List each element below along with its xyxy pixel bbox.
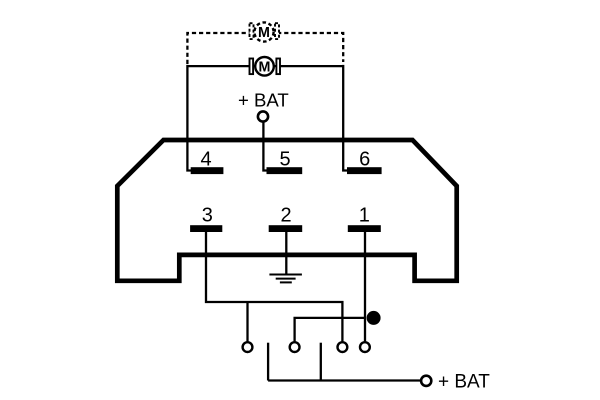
svg-text:2: 2 (280, 205, 291, 227)
svg-text:3: 3 (202, 205, 213, 227)
svg-text:6: 6 (359, 148, 370, 170)
svg-text:+ BAT: + BAT (438, 372, 490, 393)
svg-text:4: 4 (200, 148, 211, 170)
svg-text:+ BAT: + BAT (238, 90, 289, 111)
svg-text:M: M (258, 25, 270, 41)
svg-text:1: 1 (359, 205, 370, 227)
svg-text:M: M (259, 59, 271, 75)
svg-text:5: 5 (279, 148, 290, 170)
